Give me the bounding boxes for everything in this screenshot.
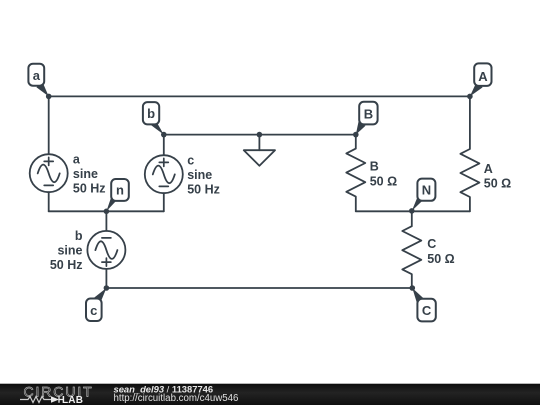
ground (244, 150, 275, 166)
wire left vertical to source a (48, 96, 50, 154)
svg-text:sine: sine (57, 244, 82, 258)
node label pointers (36, 82, 482, 302)
node junction b (161, 132, 167, 138)
svg-text:C: C (422, 303, 432, 318)
svg-text:50 Ω: 50 Ω (484, 177, 511, 191)
svg-text:LAB: LAB (62, 395, 83, 405)
svg-text:a: a (33, 68, 41, 83)
pointer c (94, 288, 107, 302)
voltage source V2 b (87, 231, 125, 269)
svg-text:c: c (90, 303, 97, 318)
node junction A (467, 94, 473, 100)
node N box (417, 179, 435, 201)
svg-text:sine: sine (187, 168, 212, 182)
node label boxes (28, 63, 491, 321)
pointer N (412, 197, 423, 211)
svg-text:B: B (370, 160, 379, 174)
wire rail y211 right B-A (356, 210, 470, 212)
pointer b (151, 121, 164, 135)
svg-text:50 Ω: 50 Ω (370, 175, 397, 189)
wire ground stem (258, 135, 260, 151)
wire source b bottom (105, 269, 107, 288)
node letters (33, 68, 488, 318)
wire rail y211 left (49, 210, 164, 212)
node junction n (104, 209, 110, 215)
svg-text:50 Hz: 50 Hz (187, 182, 220, 196)
wire top rail a-A (49, 95, 470, 97)
svg-text:sine: sine (73, 167, 98, 181)
pointer a (36, 82, 48, 96)
svg-text:C: C (427, 237, 436, 251)
wire bottom rail c-C (106, 287, 412, 289)
svg-text:A: A (478, 69, 488, 84)
svg-text:n: n (116, 182, 124, 197)
svg-text:50 Hz: 50 Hz (73, 182, 106, 196)
node A box (474, 63, 491, 86)
node c box (86, 299, 102, 322)
svg-text:a: a (73, 153, 81, 167)
wire rail y134 b-B (164, 134, 356, 136)
node B box (359, 102, 377, 125)
label V2 b sine 50 Hz (right-aligned) (50, 229, 83, 272)
svg-text:http://circuitlab.com/c4uw546: http://circuitlab.com/c4uw546 (114, 393, 239, 404)
node C box (417, 299, 435, 322)
voltage source V3 c (145, 155, 183, 193)
svg-text:b: b (75, 229, 83, 243)
pointer A (470, 82, 483, 96)
pointer B (356, 122, 366, 135)
node n box (111, 179, 129, 201)
svg-text:50 Hz: 50 Hz (50, 258, 83, 272)
node junction ground tap (257, 132, 263, 138)
svg-text:A: A (484, 162, 493, 176)
wire source c bottom (163, 193, 165, 211)
node b box (143, 102, 159, 124)
svg-text:b: b (147, 106, 155, 121)
svg-text:B: B (364, 106, 373, 121)
node junction C (410, 285, 416, 291)
node junction N (409, 208, 415, 214)
svg-text:N: N (422, 183, 431, 198)
component value texts (50, 153, 511, 273)
node junction c (104, 285, 110, 291)
footer bar (0, 382, 540, 405)
logo wire-resistor-diode squiggle (20, 397, 51, 403)
svg-text:50 Ω: 50 Ω (427, 252, 454, 266)
pointer C (412, 288, 423, 303)
resistor R C (402, 211, 421, 288)
wire source b top (105, 211, 107, 231)
node junction B (353, 132, 359, 138)
resistor R B (346, 135, 365, 212)
logo diode (51, 396, 59, 402)
svg-text:c: c (187, 153, 194, 167)
wire source c top (163, 135, 165, 156)
node a box (28, 64, 44, 86)
voltage source V1 a (30, 154, 68, 192)
pointer n (106, 198, 116, 212)
wire source a bottom (48, 192, 50, 211)
resistor R A (460, 96, 479, 211)
node junction a (46, 94, 52, 100)
